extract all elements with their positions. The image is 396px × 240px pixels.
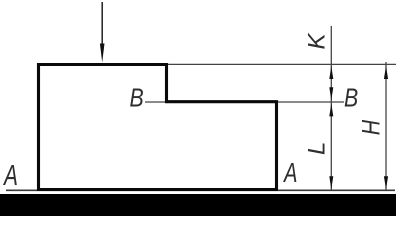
svg-text:L: L bbox=[304, 142, 331, 155]
svg-text:B: B bbox=[130, 84, 144, 114]
svg-text:A: A bbox=[2, 160, 18, 192]
svg-text:K: K bbox=[304, 33, 331, 50]
svg-text:H: H bbox=[357, 120, 385, 136]
svg-text:B: B bbox=[344, 84, 358, 114]
svg-text:A: A bbox=[282, 158, 297, 189]
